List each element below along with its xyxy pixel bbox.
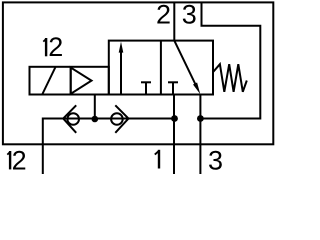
valve body V1 (3/2-way main valve, two position boxes) bbox=[109, 41, 213, 95]
wire port 12 line (corner up from bottom, along pilot supply) bbox=[43, 119, 95, 175]
return spring bbox=[213, 64, 247, 92]
wire port 3 line (valve bottom to bottom edge) bbox=[199, 95, 201, 175]
wire pilot supply line to port 1 junction bbox=[95, 118, 175, 120]
pilot box divider bbox=[70, 67, 72, 95]
check valve CV1 (from port 12) bbox=[67, 113, 79, 125]
wire port 1 line (valve bottom to bottom edge) bbox=[173, 95, 175, 175]
junction node port 1 bbox=[171, 115, 178, 122]
wire port 3 top path (right side channel) bbox=[200, 2, 260, 118]
check valve CV2 (from port 1) bbox=[111, 113, 123, 125]
svg-text:2: 2 bbox=[12, 145, 27, 174]
blocked port T (right box, port 1) bbox=[168, 81, 178, 83]
svg-text:3: 3 bbox=[208, 145, 223, 174]
blocked port T (left box, port 3) bbox=[141, 81, 151, 83]
flow path 2->3 diagonal arrow (right box) bbox=[174, 41, 196, 87]
svg-text:3: 3 bbox=[182, 0, 197, 30]
enclosure box bbox=[3, 2, 273, 144]
svg-text:2: 2 bbox=[48, 32, 63, 62]
label 12 (pilot, above solenoid) bbox=[45, 38, 47, 56]
junction node pilot feed bbox=[92, 116, 99, 123]
flow arrow 1->2 (left box) bbox=[120, 50, 122, 95]
wire port 2 line (separator between labels 2 and 3, down to valve top) bbox=[173, 2, 175, 40]
solenoid coil slash bbox=[42, 67, 55, 95]
label port 1 (bottom) bbox=[158, 150, 160, 169]
pilot amplifier triangle bbox=[71, 68, 92, 94]
label port 12 (bottom left) bbox=[9, 151, 11, 169]
valve position divider bbox=[160, 41, 162, 95]
junction node port 3 bbox=[197, 115, 204, 122]
svg-text:2: 2 bbox=[156, 0, 171, 30]
wire pilot stub down from pilot box bbox=[94, 95, 96, 119]
pilot solenoid box bbox=[30, 67, 109, 95]
